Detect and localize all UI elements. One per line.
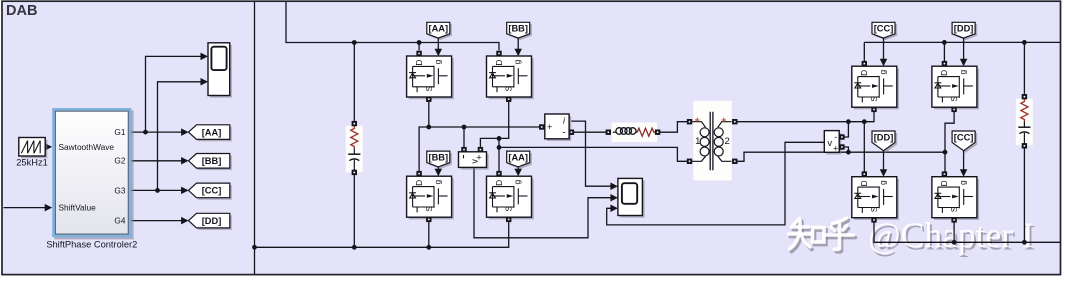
port B2 bottom: [1022, 143, 1027, 148]
port T1 primary plus: [687, 119, 692, 124]
junction node D / voltmeter U4 plus: [846, 150, 851, 155]
svg-text:SawtoothWave: SawtoothWave: [59, 142, 115, 152]
svg-text:1: 1: [695, 136, 700, 147]
mosfet Q4: [487, 176, 534, 219]
junction top bus / source branch: [352, 40, 357, 45]
svg-text:[DD]: [DD]: [202, 216, 222, 226]
transformer primary winding: [692, 122, 706, 128]
wire top dc bus right: [864, 41, 1060, 43]
mosfet Q2: [487, 56, 534, 99]
from tag [AA] gate Q1: [429, 24, 452, 40]
svg-text:[BB]: [BB]: [428, 152, 448, 162]
mosfet Q6: [932, 66, 979, 109]
wire top dc bus left: [286, 2, 499, 50]
junction G3 wire: [155, 188, 160, 193]
RL branch L1 R1: [612, 123, 658, 143]
scope block Scope1: [210, 45, 232, 98]
wire dc source branch top: [353, 43, 355, 122]
wire RL branch to transformer primary plus: [660, 122, 687, 133]
junction right bus / load branch: [1022, 40, 1027, 45]
port B1 top: [352, 121, 357, 126]
svg-text:+: +: [833, 143, 839, 154]
dc source branch B1 resistor + battery: [346, 126, 363, 173]
junction node C / Q7 drain: [862, 119, 867, 124]
wire node C down to Q7 drain: [863, 122, 865, 172]
wire G1 branch to scope1 input1: [146, 56, 202, 132]
junction bottom bus / left vertical: [252, 245, 257, 250]
svg-text:[DD]: [DD]: [874, 132, 894, 142]
mosfet Q5: [852, 66, 899, 109]
wire Q5 drain riser: [863, 42, 865, 61]
wire load branch bottom drop: [1023, 148, 1025, 242]
wire voltmeter U3 plus input drop: [463, 127, 465, 148]
mosfet Q8: [932, 177, 979, 220]
inductor L1: [613, 131, 616, 133]
svg-text:+: +: [476, 153, 482, 164]
goto tag [DD]: [191, 215, 232, 230]
junction bottom bus / source branch: [352, 245, 357, 250]
wire mosfet Q3 source drop: [428, 221, 430, 247]
from tag [BB] gate Q3: [429, 153, 452, 169]
wire transformer secondary minus to bridge2 node D: [735, 152, 945, 161]
wire mosfet Q1 source drop: [428, 101, 430, 127]
svg-text:+: +: [721, 115, 726, 125]
junction right bus / Q6 drain: [942, 40, 947, 45]
wire transformer secondary plus to bridge2 node C: [735, 112, 874, 122]
port T1 secondary plus: [732, 119, 737, 124]
wire Q6 drain riser: [943, 42, 945, 61]
wire G1 to goto AA: [131, 131, 181, 133]
svg-text:G4: G4: [114, 216, 125, 226]
transformer T1: [693, 101, 731, 181]
wire G2 to goto BB: [131, 160, 181, 162]
svg-text:[AA]: [AA]: [428, 24, 448, 34]
svg-text:ShiftValue: ShiftValue: [59, 203, 97, 213]
voltage measurement U4: [827, 133, 842, 155]
junction mid wire / voltmeter input: [462, 125, 467, 130]
wire current sensor i output to scope2 input1: [571, 121, 611, 186]
wire voltmeter U4 output to scope2 input3: [607, 142, 825, 225]
svg-text:G3: G3: [114, 185, 125, 195]
wire mosfet Q6 source to Q8 drain: [945, 112, 954, 172]
wire Q8 source drop: [953, 222, 955, 242]
wire sawtooth to controller: [46, 146, 47, 148]
watermark zhihu text: [789, 218, 856, 252]
wire G4 to goto DD: [131, 220, 181, 222]
mosfet Q3: [407, 176, 454, 219]
svg-text:@Chapter I: @Chapter I: [868, 215, 1034, 255]
port RL left: [606, 130, 611, 135]
svg-text:2: 2: [725, 136, 730, 147]
capacitor C2 plates: [1018, 126, 1030, 128]
junction right bottom bus / Q8 source: [952, 240, 957, 245]
scope block Scope2: [620, 181, 645, 218]
svg-text:[DD]: [DD]: [954, 24, 974, 34]
subsystem block ShiftPhase Controler2: [54, 110, 133, 239]
from tag [CC] gate Q5: [874, 24, 897, 40]
junction bottom bus / Q3 source: [426, 245, 431, 250]
svg-text:25kHz1: 25kHz1: [16, 158, 48, 168]
svg-text:[BB]: [BB]: [508, 24, 528, 34]
svg-text:v: v: [827, 138, 832, 149]
wire load branch top riser: [1023, 42, 1025, 94]
wire node B down to Q4 drain: [498, 138, 500, 171]
svg-text:[AA]: [AA]: [508, 152, 528, 162]
svg-text:+: +: [547, 122, 553, 133]
port T1 secondary minus: [732, 159, 737, 164]
svg-text:[AA]: [AA]: [202, 127, 222, 137]
wire voltmeter U3 output to scope2 input2: [474, 168, 611, 238]
svg-text:-: -: [562, 127, 565, 138]
from tag [AA] gate Q4: [509, 153, 532, 169]
svg-text:-: -: [834, 132, 837, 142]
svg-text:[BB]: [BB]: [202, 156, 222, 166]
port B2 top: [1022, 94, 1027, 99]
svg-text:+: +: [695, 115, 700, 125]
battery E1 plates: [348, 153, 360, 155]
current measurement U2: [547, 116, 571, 141]
wire voltmeter U4 minus input: [844, 122, 848, 137]
wire mosfet Q2 source to node B: [480, 101, 508, 147]
resistor R1: [351, 126, 358, 149]
junction top bus / Q1 drain: [417, 40, 422, 45]
wire ShiftValue input: [4, 207, 47, 209]
from tag [DD] gate Q7: [874, 133, 897, 153]
voltage measurement U3: [461, 154, 489, 170]
port T1 primary minus: [687, 159, 692, 164]
resistor R2: [1021, 99, 1028, 122]
transformer secondary winding: [718, 122, 732, 128]
wire long left vertical net: [254, 2, 256, 274]
source block 25kHz1 sawtooth: [21, 140, 47, 159]
wire bridge1 node B to transformer primary minus: [499, 147, 687, 161]
resistor R3: [637, 128, 655, 136]
wire dc source branch bottom: [353, 175, 355, 248]
from tag [CC] gate Q8: [954, 133, 977, 153]
wire bottom return bus: [255, 221, 509, 247]
mosfet Q7: [852, 177, 899, 220]
svg-text:G2: G2: [114, 156, 125, 166]
svg-text:G1: G1: [114, 127, 125, 137]
junction node B lower: [497, 145, 502, 150]
svg-text:[CC]: [CC]: [874, 24, 894, 34]
wire current sensor minus to RL branch: [574, 131, 607, 133]
junction node D / Q8 drain: [943, 150, 948, 155]
junction G1 wire: [143, 130, 148, 135]
wire G3 branch to scope1 input2: [158, 82, 202, 191]
from tag [BB] gate Q2: [509, 24, 532, 40]
svg-text:DAB: DAB: [6, 3, 37, 19]
transformer core: [710, 112, 713, 171]
junction right bottom bus / load branch: [1022, 240, 1027, 245]
junction mid wire / Q1 source: [426, 125, 431, 130]
load branch B2 resistor + capacitor: [1016, 99, 1033, 146]
junction node C / voltmeter U4 minus: [846, 119, 851, 124]
goto tag [BB]: [191, 156, 232, 171]
mosfet Q1: [407, 56, 454, 99]
wire voltmeter U4 plus input: [844, 147, 848, 152]
junction node B upper: [497, 136, 502, 141]
svg-text:ShiftPhase Controler2: ShiftPhase Controler2: [46, 239, 137, 249]
wire bridge1 midpoint A to current sensor: [419, 127, 539, 172]
from tag [DD] gate Q6: [954, 24, 977, 40]
scope2 input arrows: [610, 182, 618, 190]
wire G3 to goto CC: [131, 189, 181, 191]
port B1 bottom: [352, 170, 357, 175]
goto tag [CC]: [191, 185, 232, 200]
port RL right: [655, 130, 660, 135]
svg-text:[CC]: [CC]: [954, 132, 974, 142]
svg-text:[CC]: [CC]: [202, 186, 222, 196]
wire mosfet Q1 drain riser: [418, 43, 420, 51]
wire bottom bus right: [874, 222, 1060, 242]
goto tag [AA]: [191, 127, 232, 142]
